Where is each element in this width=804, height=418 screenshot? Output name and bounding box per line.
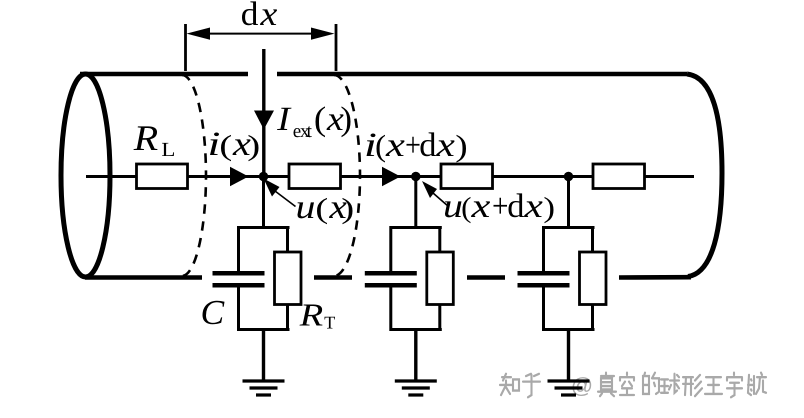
ground 3 (548, 381, 590, 395)
voltage pointer u(x+dx) (422, 181, 449, 207)
resistor R_T2 top lead (438, 226, 441, 253)
current arrow i(x+dx) (382, 167, 401, 186)
capacitor C bottom lead (237, 288, 240, 332)
label u(x+dx) (445, 193, 554, 223)
resistor R2 (series) (289, 164, 341, 189)
resistor R4 (series) (593, 164, 645, 189)
capacitor 2 (365, 273, 417, 285)
capacitor C top lead (237, 226, 240, 272)
watermark zhihu (500, 373, 766, 398)
cross-section dashed arc at x+dx (334, 75, 360, 276)
cylinder right end cap (687, 74, 722, 277)
resistor R_T (275, 252, 302, 305)
wire: R2 to node 2 (341, 175, 442, 178)
resistor R_T top lead (286, 226, 289, 253)
知 (500, 374, 519, 395)
resistor R_T3 (580, 252, 607, 305)
宇 (727, 373, 742, 398)
RC2 bottom bar (390, 328, 442, 331)
label R_L (134, 126, 175, 156)
王 (705, 377, 722, 394)
wire: R_L to node 1 (188, 175, 290, 178)
capacitor C (213, 273, 265, 285)
乎 (523, 374, 540, 397)
label i(x) (210, 133, 259, 162)
label R_T (300, 305, 336, 329)
航 (748, 373, 766, 395)
capacitor 3 (518, 273, 570, 285)
resistor R_T3 top lead (591, 226, 594, 253)
current source lead I_ext (262, 49, 265, 177)
voltage pointer u(x) (264, 179, 296, 207)
的 (643, 373, 659, 394)
RC1 bottom bar (238, 328, 290, 331)
cylinder left end cap (61, 74, 110, 277)
球 (661, 374, 679, 393)
ground lead 3 (567, 330, 570, 382)
label I_ext(x) (277, 106, 351, 137)
形 (683, 375, 702, 396)
resistor R_T2 (427, 252, 454, 305)
resistor R_T2 bottom lead (438, 304, 441, 331)
dimension tick at x+dx (335, 24, 338, 71)
wire: node 2 down (414, 177, 417, 228)
node 3 (564, 172, 573, 181)
空 (620, 373, 634, 395)
RC3 top bar (543, 226, 595, 229)
ground lead 2 (414, 330, 417, 382)
wire: node 1 down (262, 177, 265, 228)
capacitor 3 bottom lead (542, 288, 545, 332)
node 1 (259, 172, 268, 181)
label C (203, 301, 225, 325)
dimension tick at x (184, 24, 187, 71)
wire: R4 to right cap (645, 175, 695, 178)
resistor R_T bottom lead (286, 304, 289, 331)
arrowhead I_ext (254, 111, 274, 130)
wire: feed from end cap (86, 175, 136, 178)
wire: node 3 down (567, 177, 570, 228)
current arrow i(x) (230, 167, 249, 186)
resistor R_L (137, 164, 188, 189)
ground lead 1 (262, 330, 265, 382)
RC2 top bar (390, 226, 442, 229)
cross-section dashed arc at x (182, 75, 206, 276)
RC3 bottom bar (543, 328, 595, 331)
cylinder bottom edge (85, 275, 691, 280)
label u(x) (298, 198, 353, 224)
label i(x+dx) (367, 132, 467, 162)
wire: R3 to node 3 (493, 175, 594, 178)
capacitor 2 bottom lead (389, 288, 392, 332)
capacitor 2 top lead (389, 226, 392, 272)
capacitor 3 top lead (542, 226, 545, 272)
resistor R_T3 bottom lead (591, 304, 594, 331)
ground 1 (243, 381, 285, 395)
真 (598, 373, 616, 396)
watermark @ (573, 377, 592, 396)
ground 2 (395, 381, 437, 395)
label dx (242, 1, 277, 25)
dimension arrow dx (187, 28, 335, 40)
cylinder top edge (80, 72, 687, 77)
resistor R3 (series) (441, 164, 493, 189)
node 2 (411, 172, 420, 181)
RC1 top bar (238, 226, 290, 229)
